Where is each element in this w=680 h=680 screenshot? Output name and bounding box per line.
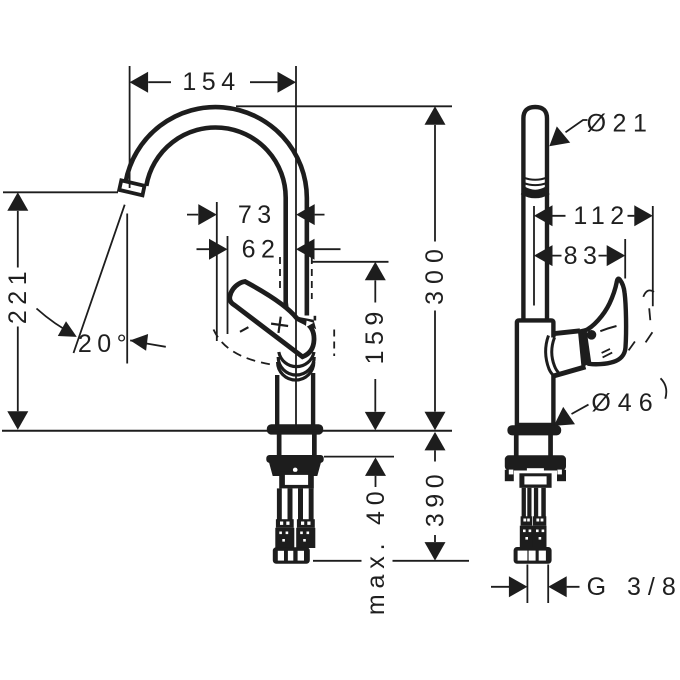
svg-text:159: 159 [361, 306, 389, 364]
svg-text:73: 73 [238, 201, 277, 229]
svg-text:max. 40: max. 40 [362, 486, 390, 616]
svg-text:G 3/8: G 3/8 [587, 573, 680, 601]
svg-text:83: 83 [564, 242, 603, 270]
svg-text:Ø46: Ø46 [591, 389, 659, 417]
svg-text:112: 112 [573, 202, 629, 230]
svg-text:Ø21: Ø21 [587, 110, 654, 138]
svg-text:221: 221 [4, 266, 32, 324]
svg-text:390: 390 [422, 469, 450, 527]
svg-text:20°: 20° [78, 330, 132, 358]
svg-text:62: 62 [242, 235, 281, 263]
svg-text:300: 300 [421, 242, 449, 305]
svg-text:154: 154 [182, 68, 240, 96]
